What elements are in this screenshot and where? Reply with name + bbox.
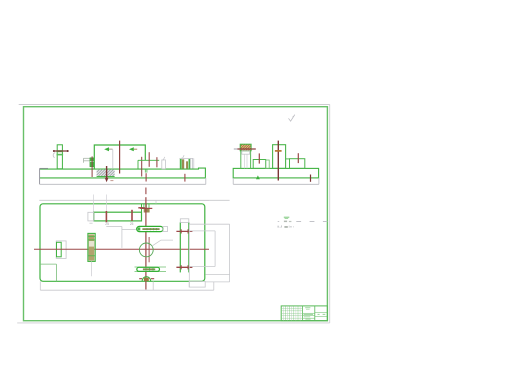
side view base lower plate bbox=[233, 178, 319, 184]
workpiece phantom top edge bbox=[39, 199, 229, 201]
section cutting dashed line bbox=[296, 221, 327, 223]
clamp bolt plan bbox=[88, 233, 95, 261]
left column walls bbox=[241, 151, 251, 169]
technical notes heading bbox=[284, 217, 290, 219]
leader from bore bbox=[152, 240, 173, 246]
leader line from top screw bbox=[146, 200, 209, 203]
center column main centerline bbox=[275, 141, 282, 181]
small weld label bbox=[110, 180, 113, 181]
main vertical centerline bbox=[145, 197, 147, 289]
stop block outline bbox=[162, 160, 166, 169]
revision grid columns bbox=[283, 306, 300, 321]
main clamp housing box bbox=[94, 145, 145, 169]
locating post with handle bbox=[57, 145, 64, 169]
plan view base plate bbox=[40, 204, 205, 281]
housing inner guide line bbox=[109, 150, 113, 169]
lower guide slot bbox=[135, 267, 167, 272]
phantom outline below plate bbox=[40, 281, 214, 290]
guide key side plate bbox=[191, 158, 194, 168]
sectioned base hatch block bbox=[97, 170, 115, 177]
surface finish checkmark bbox=[289, 115, 295, 122]
paper edge outline bbox=[17, 105, 330, 323]
left direction arrow bbox=[104, 147, 112, 151]
clamp force arrow bbox=[105, 166, 109, 182]
projection lines to front view bbox=[94, 195, 107, 213]
right direction arrow bbox=[129, 147, 137, 151]
pedestal hole centerline 1 bbox=[148, 152, 150, 167]
left support block bbox=[253, 160, 266, 169]
drawing name text bbox=[304, 307, 313, 319]
spring washer arc bbox=[53, 153, 55, 158]
svg-text:25: 25 bbox=[130, 222, 134, 226]
workpiece phantom step bbox=[106, 227, 136, 248]
revision grid rows bbox=[281, 308, 302, 318]
bar end connector bbox=[138, 204, 145, 212]
left stop pad bbox=[56, 241, 66, 259]
pedestal ledge bbox=[138, 159, 159, 161]
front view base lower plate bbox=[40, 178, 206, 184]
scale and sheet text bbox=[318, 313, 326, 316]
bolt projection line bbox=[90, 261, 92, 276]
title block main dividers bbox=[303, 306, 315, 321]
plate corner notch bbox=[40, 264, 56, 281]
column screw centerline bbox=[234, 148, 256, 150]
finish mark on stop block bbox=[162, 157, 165, 160]
notes line 2 bbox=[278, 225, 294, 227]
finish mark on guide key bbox=[181, 155, 184, 158]
main horizontal centerline bbox=[34, 248, 209, 250]
bolt below housing bbox=[145, 169, 147, 182]
right cell rows bbox=[315, 313, 328, 317]
center bore circle bbox=[139, 243, 153, 257]
side view base plate bbox=[233, 168, 318, 178]
slide bar bbox=[88, 212, 142, 221]
right locating column bbox=[180, 219, 189, 273]
notes line 1 bbox=[278, 221, 292, 223]
projection centerline to plan bbox=[145, 188, 147, 195]
workpiece phantom outline right bbox=[189, 224, 229, 287]
guide key assembly bbox=[179, 158, 193, 168]
centerline right of housing bbox=[141, 157, 143, 177]
center column bbox=[273, 145, 286, 169]
handle bar bbox=[53, 150, 69, 152]
slide bar hole centerline 1 bbox=[105, 211, 107, 222]
right block centerline bbox=[297, 153, 299, 163]
bottom clamp nut bbox=[139, 277, 154, 281]
base hole centerline right bbox=[184, 174, 186, 182]
right support block bbox=[290, 159, 305, 169]
base dowel centerline bbox=[310, 175, 312, 182]
slide bar hole centerline 2 bbox=[131, 210, 133, 221]
ledge between column and block bbox=[286, 158, 290, 160]
side clamp bracket bbox=[84, 158, 95, 167]
svg-text:25: 25 bbox=[105, 222, 109, 226]
top clamp screw plan bbox=[140, 204, 152, 213]
upper guide slot bbox=[137, 226, 168, 231]
narrow spacer block bbox=[266, 160, 270, 168]
pedestal hole centerline 2 bbox=[156, 157, 158, 167]
second bore centerline bbox=[148, 237, 150, 262]
column washer box bbox=[242, 151, 250, 154]
left block centerline bbox=[258, 153, 260, 163]
datum arrow on base line bbox=[256, 175, 260, 179]
middle cell rows bbox=[303, 313, 315, 318]
workpiece phantom inner pocket bbox=[189, 231, 215, 267]
column hole centerline top bbox=[176, 229, 192, 233]
front view base plate top band bbox=[40, 168, 206, 184]
drawing border frame bbox=[24, 107, 328, 321]
housing centerline bbox=[119, 141, 121, 174]
column nut hatch block bbox=[240, 144, 251, 151]
column hole centerline bottom bbox=[176, 265, 192, 269]
bracket screw centerline bbox=[91, 156, 93, 177]
tiny label under bar bbox=[89, 222, 92, 225]
title block outer frame bbox=[281, 306, 327, 321]
